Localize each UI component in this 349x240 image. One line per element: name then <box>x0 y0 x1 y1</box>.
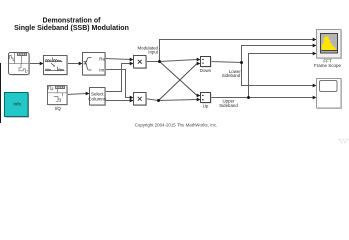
svg-text:Info: Info <box>13 102 21 107</box>
svg-text:Sideband: Sideband <box>219 103 238 108</box>
wire node1 to Down in1 <box>160 60 198 62</box>
node4 junction <box>247 96 250 99</box>
wire B to C <box>67 63 79 65</box>
wire node1 diagonal to Up in1 <box>160 62 198 96</box>
label Modulated Input <box>137 45 158 54</box>
wire node3 riser up to FFT in2 <box>242 46 314 63</box>
wire P2 out to node2 <box>146 99 159 101</box>
block A source subsystem <box>9 53 31 76</box>
wire Down out to node3 <box>211 62 242 63</box>
block scope2 <box>317 79 343 110</box>
watermark bottom right <box>339 139 349 144</box>
wire node4 riser up to FFT in3 <box>249 54 314 98</box>
svg-text:Copyright 2004-2015 The MathWo: Copyright 2004-2015 The MathWorks, Inc. <box>135 122 218 127</box>
block P1 product <box>134 56 148 70</box>
wire C.Im to product P2 in1 <box>105 70 130 98</box>
svg-text:Frame Scope: Frame Scope <box>314 63 342 68</box>
wire P1 out to node1 <box>146 61 160 63</box>
svg-text:Up: Up <box>203 103 209 108</box>
block Up sum <box>201 93 212 104</box>
svg-text:Single Sideband (SSB) Modulati: Single Sideband (SSB) Modulation <box>14 25 129 32</box>
wire C.Re to product P1 in1 <box>105 59 130 60</box>
wire node4 to scope2 in2 <box>249 97 314 99</box>
svg-text:Input: Input <box>148 49 159 54</box>
left edge artifact <box>0 63 1 123</box>
block Select Columns <box>88 88 107 107</box>
svg-text:I/Q: I/Q <box>55 106 62 111</box>
svg-text:Sideband: Sideband <box>222 73 241 78</box>
block C complex to real-imag <box>83 53 107 77</box>
block Info <box>5 93 30 118</box>
label Upper Sideband <box>219 99 238 108</box>
svg-text:Im: Im <box>99 68 104 73</box>
label Lower Sideband <box>222 69 242 78</box>
block P2 product <box>134 93 148 107</box>
wire IQ to SelectColumns <box>67 94 86 95</box>
svg-text:Down: Down <box>200 68 212 73</box>
svg-text:Re: Re <box>99 56 105 61</box>
svg-text:Columns: Columns <box>88 96 107 101</box>
block IQ source <box>48 86 69 106</box>
node1 junction <box>158 60 161 63</box>
wire Up out to node4 <box>211 97 249 99</box>
block Down sum <box>201 57 212 68</box>
wire A to B <box>29 63 40 65</box>
node3 junction <box>240 61 243 64</box>
block B analytic signal <box>44 56 69 76</box>
svg-text:Demonstration of: Demonstration of <box>43 17 102 24</box>
wire SelectColumns out2 to product P2 in2 <box>105 100 130 102</box>
block FFT Frame Scope <box>317 30 343 60</box>
wire node2 diagonal to Down in2 <box>159 64 198 101</box>
wire node1 riser to FFT in1 <box>160 40 314 62</box>
node2 junction <box>157 99 160 102</box>
title annotation <box>14 17 129 32</box>
wire node2 to Up in2 <box>159 100 198 101</box>
wire SelectColumns out1 to product P1 in2 <box>105 64 130 92</box>
wire node3 riser down to scope2 in1 <box>242 63 314 86</box>
